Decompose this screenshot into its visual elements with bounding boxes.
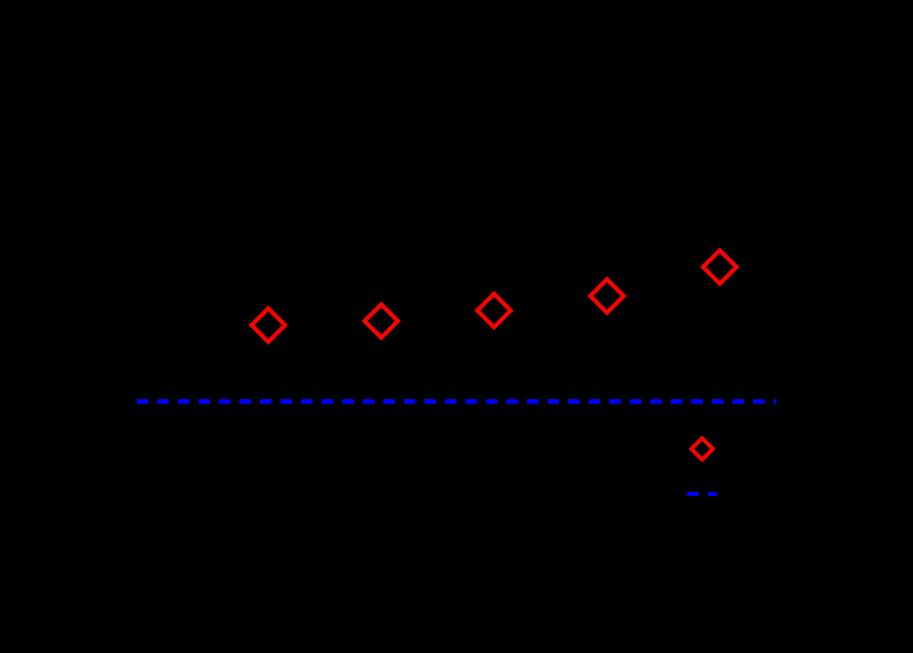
dashed threshold line (blue) bbox=[137, 399, 777, 404]
data point marker D1 bbox=[252, 308, 285, 341]
data point marker D3 bbox=[477, 294, 510, 327]
legend marker sample (red diamond) bbox=[691, 438, 713, 459]
data point marker D4 bbox=[590, 279, 623, 312]
data point marker D5 bbox=[703, 250, 736, 283]
data point marker D2 bbox=[365, 304, 398, 337]
legend line sample (blue dashes) bbox=[687, 492, 717, 496]
